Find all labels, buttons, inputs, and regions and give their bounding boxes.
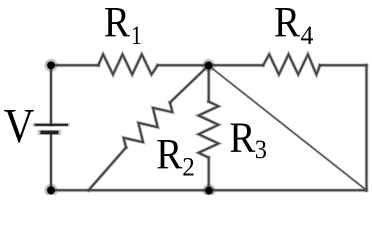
svg-text:R: R <box>104 0 130 47</box>
battery V long plate <box>35 124 68 126</box>
node A junction (top-left) <box>47 62 55 70</box>
wire right vertical <box>366 65 368 190</box>
battery V short plate <box>40 131 58 135</box>
node C junction (bottom-left) <box>47 186 55 194</box>
resistor R3 <box>199 102 219 158</box>
resistor R2 lead top <box>170 66 209 103</box>
resistor R4 <box>263 54 320 74</box>
svg-text:R: R <box>274 0 300 47</box>
svg-text:2: 2 <box>182 153 195 182</box>
resistor R3 lead bottom <box>208 158 210 191</box>
node B junction (center) <box>205 62 213 70</box>
svg-text:4: 4 <box>301 21 314 50</box>
resistor R2 <box>124 103 173 148</box>
resistor R1 <box>98 54 157 74</box>
resistor R2 lead bottom <box>89 148 127 191</box>
svg-text:R: R <box>229 114 255 162</box>
wire diagonal: node B to bottom-right corner <box>209 66 367 191</box>
resistor R3 lead top <box>208 66 210 102</box>
svg-text:V: V <box>4 98 35 153</box>
wire top-right: R4 to corner <box>320 64 367 66</box>
wire top-middle: R1 to R4 through node B <box>158 64 264 66</box>
node D junction (bottom-center) <box>205 187 213 195</box>
svg-text:3: 3 <box>255 135 267 164</box>
wire left vertical upper: node A to battery <box>50 65 52 125</box>
wire bottom <box>51 189 367 191</box>
wire left vertical lower: battery to node C <box>50 132 52 190</box>
wire top-left: node A to R1 <box>51 64 98 66</box>
svg-text:1: 1 <box>131 21 142 50</box>
svg-text:R: R <box>156 131 182 179</box>
